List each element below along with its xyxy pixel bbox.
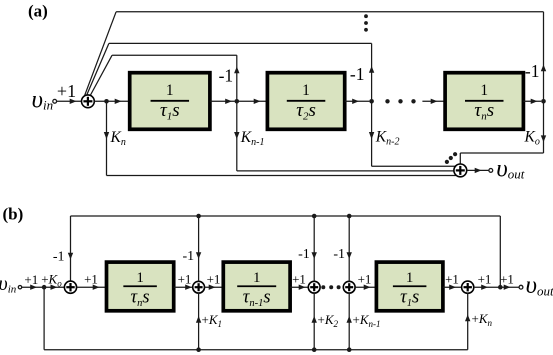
- svg-text:-1: -1: [298, 247, 310, 262]
- svg-text:1: 1: [166, 82, 174, 99]
- svg-text:-1: -1: [219, 66, 234, 86]
- svg-text:-1: -1: [53, 250, 65, 265]
- svg-text:+1: +1: [292, 272, 306, 287]
- svg-text:-1: -1: [333, 247, 345, 262]
- svg-text:1: 1: [136, 270, 144, 286]
- svg-text:-1: -1: [183, 249, 195, 264]
- svg-text:+1: +1: [445, 272, 459, 287]
- svg-text:1: 1: [406, 270, 414, 286]
- svg-text:1: 1: [480, 82, 488, 99]
- svg-text:+1: +1: [207, 272, 221, 287]
- svg-text:+1: +1: [24, 272, 38, 287]
- svg-text:-1: -1: [525, 61, 540, 81]
- svg-text:1: 1: [253, 270, 261, 286]
- svg-text:(b): (b): [3, 205, 24, 224]
- svg-text:-1: -1: [350, 64, 365, 84]
- svg-text:1: 1: [302, 82, 310, 99]
- svg-text:+1: +1: [57, 81, 76, 101]
- svg-text:+1: +1: [478, 272, 492, 287]
- svg-text:+1: +1: [178, 272, 192, 287]
- svg-text:+1: +1: [84, 272, 98, 287]
- svg-text:+1: +1: [500, 272, 514, 287]
- svg-text:+1: +1: [358, 272, 372, 287]
- svg-text:(a): (a): [28, 2, 48, 21]
